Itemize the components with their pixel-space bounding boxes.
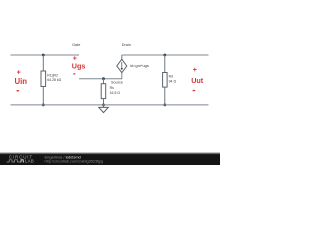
port Uin [15,70,28,92]
wire drain rail [122,54,209,56]
logo waveform [7,160,21,162]
resistor Rs [101,79,120,105]
logo pulse mark [20,160,24,162]
svg-text:LAB: LAB [25,159,34,164]
ground [99,105,109,113]
svg-text:id=gm*ugs: id=gm*ugs [130,63,149,68]
wire bottom rail [11,104,209,106]
junction dot gate/R1R2 [42,54,45,57]
svg-text:R1||R2: R1||R2 [47,73,58,77]
svg-text:http://circuitlab.com/c/abtg35: http://circuitlab.com/c/abtg3523fjpg [45,160,104,164]
junction dot Rs bottom / ground [102,104,105,107]
wire gate rail [11,54,80,56]
svg-text:Gate: Gate [72,43,80,47]
junction dot drain/Rd [163,54,166,57]
svg-text:+: + [17,70,21,77]
svg-text:Source: Source [111,80,123,84]
svg-text:Rd: Rd [169,75,174,79]
junction dot R1R2 bottom [42,104,45,107]
svg-text:Rs: Rs [110,86,115,90]
junction dot Rd bottom [163,104,166,107]
svg-text:Drain: Drain [122,43,131,47]
dependent source U1 id=gm*ugs [117,55,149,73]
svg-text:Uut: Uut [191,76,204,85]
svg-text:Uin: Uin [15,77,28,86]
svg-text:16.5 Ω: 16.5 Ω [110,91,121,95]
svg-text:Ugs: Ugs [72,61,86,70]
svg-text:64.28 kΩ: 64.28 kΩ [47,78,61,82]
svg-text:94 Ω: 94 Ω [169,80,177,84]
wire source line [79,73,122,79]
port Uut [191,67,204,91]
resistor R1||R2 [41,55,62,105]
resistor Rd [163,55,177,105]
junction dot source/Rs [102,77,105,80]
port Ugs [72,56,86,75]
svg-text:+: + [193,67,197,74]
